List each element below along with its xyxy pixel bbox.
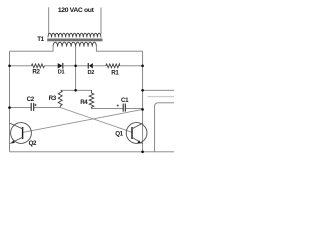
wire primary right lead to right rail <box>96 45 142 51</box>
svg-text:C1: C1 <box>121 97 129 104</box>
transformer T1 core <box>47 39 102 42</box>
C2 polarity plus mark <box>34 104 36 106</box>
resistor R1 <box>106 64 120 68</box>
wire right rail <box>142 51 144 152</box>
wire diagonal B to Q2 base <box>23 109 143 132</box>
wire primary left lead to left rail <box>10 45 54 51</box>
wire ground rail <box>10 151 155 153</box>
resistor R2 <box>31 64 44 68</box>
wire base drive row <box>10 65 143 67</box>
wire C1 row <box>92 108 143 110</box>
junction right rail / output stub <box>141 89 144 92</box>
transistor Q2 <box>10 123 32 144</box>
junction right rail / R1 <box>141 65 144 68</box>
capacitor C1 <box>123 104 125 112</box>
svg-text:T1: T1 <box>37 36 44 43</box>
svg-text:D2: D2 <box>88 70 95 76</box>
junction right rail / ground <box>141 151 144 154</box>
wire left rail <box>9 51 11 152</box>
resistor R4 <box>89 90 94 108</box>
wire center tap <box>75 47 77 91</box>
svg-text:D1: D1 <box>58 70 65 76</box>
junction center tap / diode row <box>74 65 77 68</box>
junction left rail / C2 <box>8 106 11 109</box>
junction left rail / R2 <box>8 65 11 68</box>
svg-text:R1: R1 <box>111 69 119 76</box>
wire R3 R4 top row <box>61 89 92 91</box>
wire C2 row <box>10 107 61 109</box>
svg-text:120 VAC out: 120 VAC out <box>58 7 95 14</box>
wire diagonal A to Q1 base <box>61 108 132 133</box>
svg-text:Q2: Q2 <box>29 140 37 147</box>
resistor R3 <box>58 90 62 107</box>
wire secondary right lead <box>100 8 102 34</box>
transistor Q1 <box>126 123 147 144</box>
C1 polarity plus mark <box>117 104 119 106</box>
junction right rail / C1 <box>141 108 144 111</box>
diode D2 <box>88 63 93 69</box>
transformer T1 secondary winding <box>48 33 101 37</box>
svg-text:Q1: Q1 <box>115 131 123 138</box>
svg-text:R4: R4 <box>80 99 88 106</box>
wire secondary left lead <box>48 7 50 34</box>
svg-text:C2: C2 <box>27 96 35 103</box>
svg-text:R2: R2 <box>32 69 40 76</box>
diode D1 <box>58 63 64 69</box>
svg-text:R3: R3 <box>49 95 57 102</box>
transformer T1 primary winding <box>53 42 96 46</box>
battery box bottom right <box>155 103 174 152</box>
capacitor C2 <box>31 103 34 111</box>
wire right output stub <box>143 89 174 91</box>
wire faint battery line <box>148 96 175 98</box>
junction center tap / R3 R4 row <box>74 89 77 92</box>
